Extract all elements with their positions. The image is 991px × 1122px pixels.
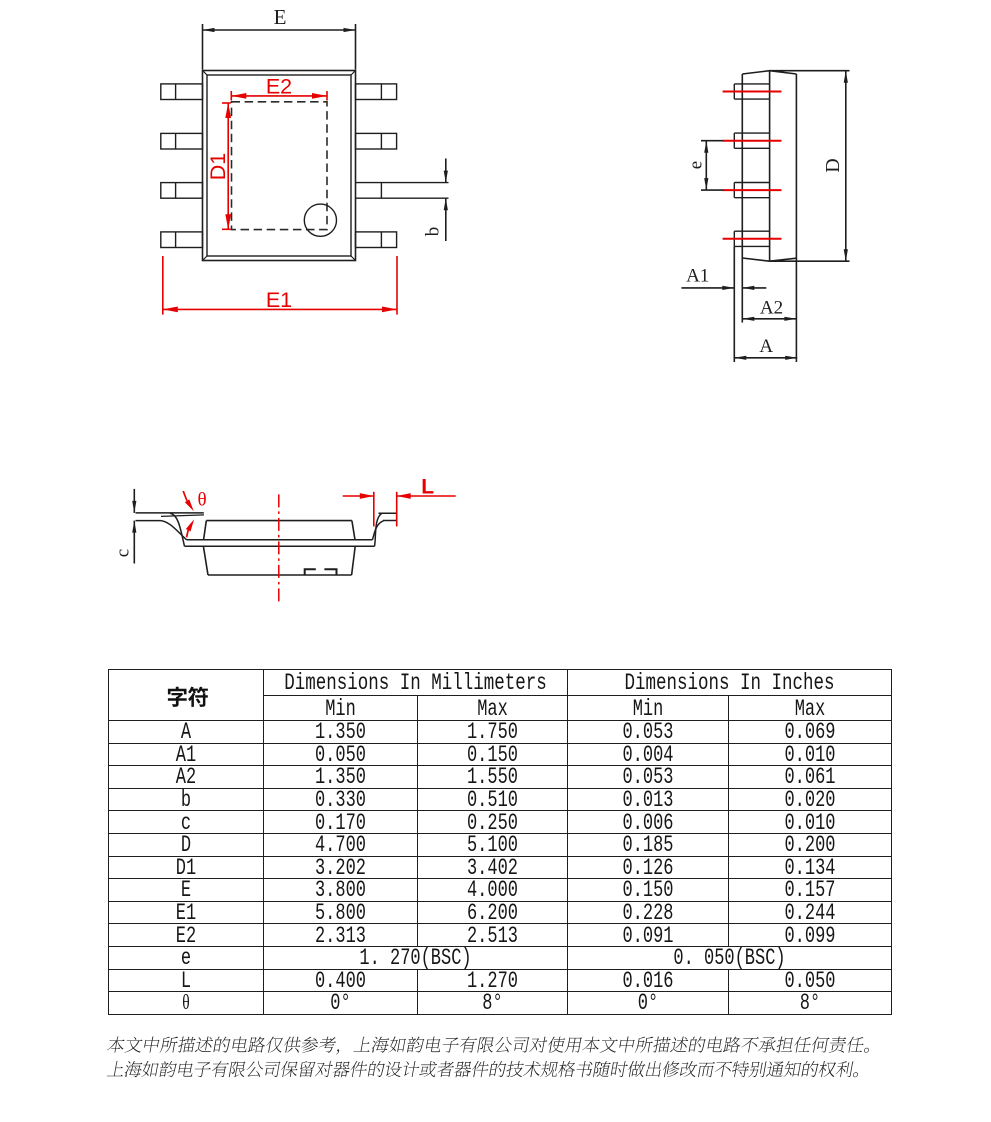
svg-text:E: E (274, 5, 287, 29)
top view: pin 4 (right) (356, 232, 397, 248)
profile view: dimension c (113, 489, 137, 564)
side view: dimension A (734, 336, 797, 360)
svg-text:E2: E2 (266, 75, 292, 99)
top view: dimension E2 (red) (231, 75, 327, 101)
top view: pin 2 (right) (356, 133, 397, 149)
top view: pin 3 (right, extended for b) (356, 183, 449, 199)
side view: dimension A2 (742, 298, 796, 321)
dimensions table (108, 669, 892, 1015)
profile view: dimension L (red) (343, 476, 456, 527)
top view: dimension E (203, 5, 356, 70)
side view: pin row 2 lead plane (red) (723, 140, 782, 142)
side view: pin row 3 (734, 183, 769, 198)
top view: die pad dashed outline (232, 102, 328, 230)
side view: pin row 4 lead plane (red) (723, 238, 782, 240)
side view: pin row 1 (734, 84, 769, 99)
top view: package body (203, 71, 356, 261)
profile view: right lead (372, 513, 396, 546)
top view: dimension E1 (red) (163, 256, 397, 315)
profile view: left lead (136, 513, 205, 546)
side view: pin row 1 lead plane (red) (723, 91, 782, 93)
side view: D extension lines (770, 71, 850, 262)
side view: A/A1/A2 extension lines (734, 246, 742, 362)
svg-text:A: A (759, 336, 773, 357)
top view: pin 8 (left) (161, 84, 203, 100)
top view: pin 7 (left) (161, 133, 203, 149)
side view: dimension A1 (681, 266, 766, 291)
table header label: 字符 (168, 687, 208, 707)
top view: dimension D1 (red) (206, 103, 231, 229)
top view: pin 1 marker circle (304, 204, 336, 236)
svg-text:A1: A1 (686, 266, 709, 287)
profile view: center line (red) (278, 494, 280, 601)
footer disclaimer line 1 (Chinese italic) (107, 1037, 869, 1055)
top view: pin 5 (left) (161, 232, 203, 248)
top view: dimension b (423, 159, 448, 242)
svg-text:b: b (423, 227, 444, 237)
side view: package body (742, 71, 796, 362)
top view: pin 1 (right) (356, 84, 397, 100)
profile view: leadframe plane lines (185, 540, 375, 547)
svg-text:e: e (686, 161, 707, 169)
svg-text:E1: E1 (266, 288, 292, 312)
svg-text:L: L (421, 476, 434, 499)
svg-text:c: c (113, 549, 134, 557)
profile view: package body (203, 521, 355, 575)
profile view: angle theta (red) (183, 489, 206, 537)
svg-text:θ: θ (197, 489, 206, 510)
side view: pin row 4 (734, 231, 769, 246)
side view: dimension D (822, 71, 848, 262)
footer disclaimer line 2 (Chinese italic) (107, 1061, 858, 1077)
profile view: bottom notch (305, 569, 337, 575)
side view: dimension e (686, 141, 724, 190)
svg-text:A2: A2 (760, 298, 783, 319)
side view: pin row 2 (734, 133, 769, 148)
svg-text:D: D (822, 158, 844, 172)
svg-text:D1: D1 (206, 153, 230, 180)
top view: pin 6 (left) (161, 183, 203, 199)
side view: pin row 3 lead plane (red) (723, 189, 782, 191)
